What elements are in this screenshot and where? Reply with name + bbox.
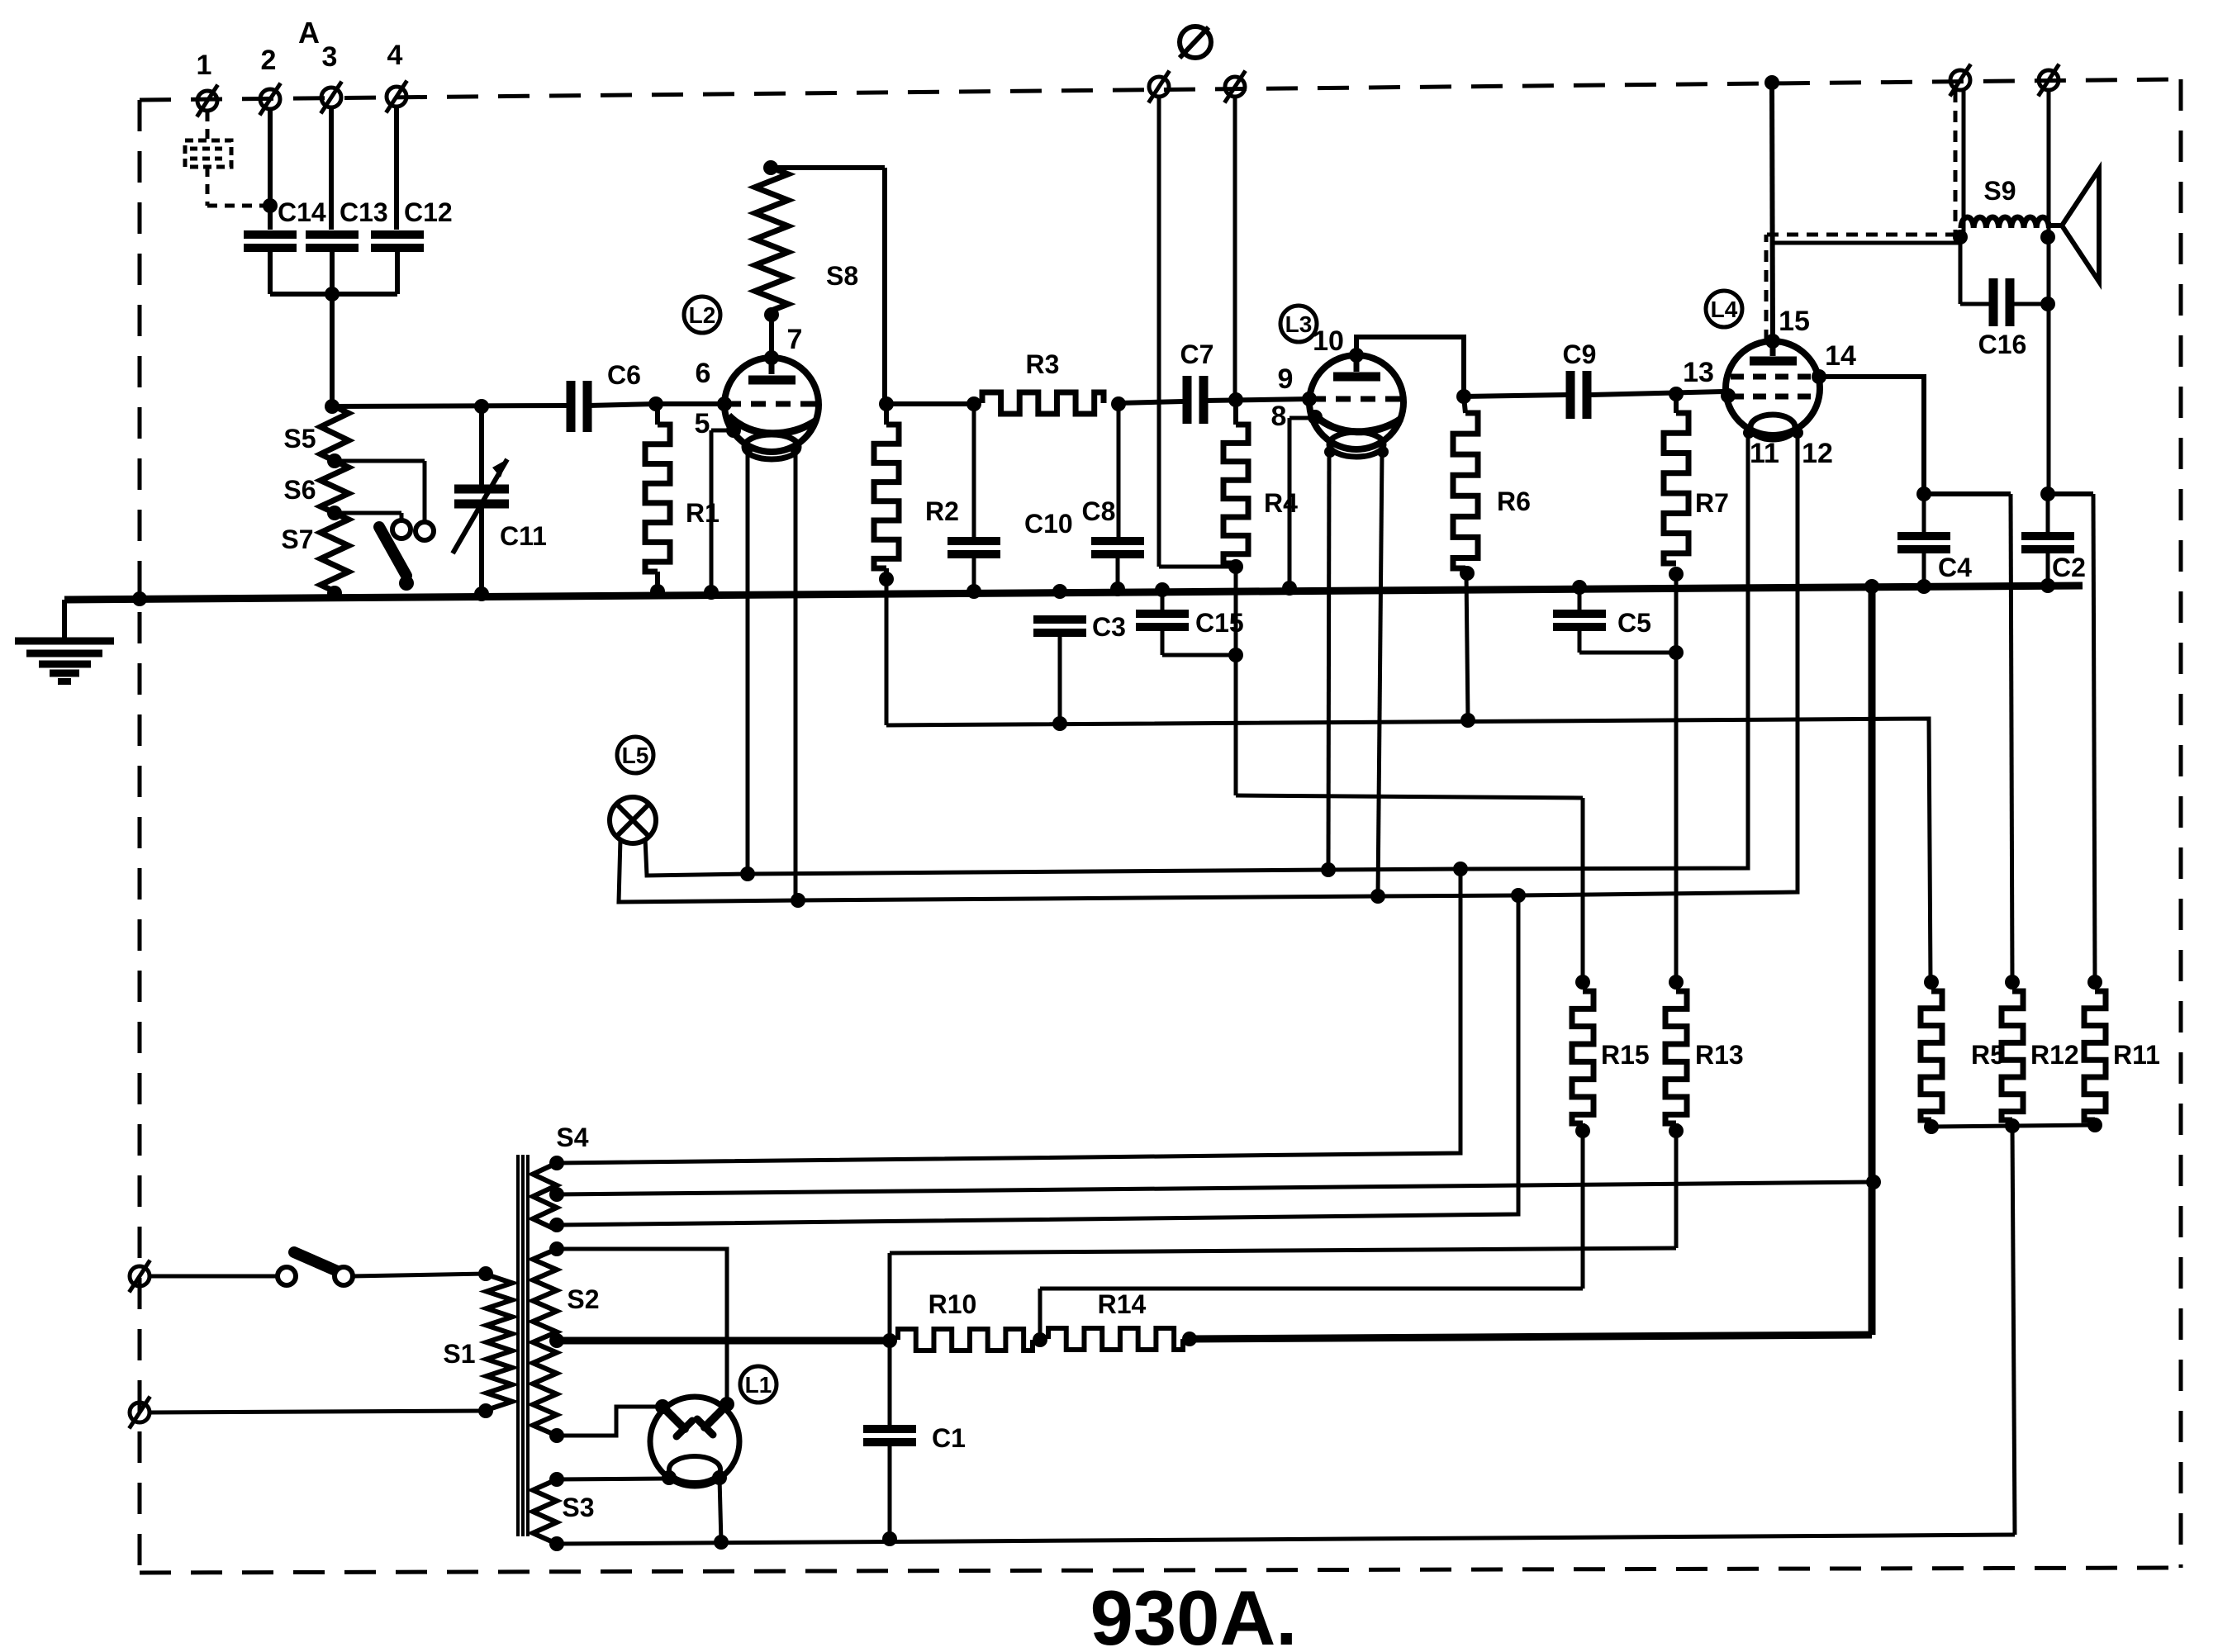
coil S5 (283, 406, 349, 461)
wire (C2 node to R11 line) (2048, 494, 2095, 982)
svg-text:R4: R4 (1264, 488, 1298, 518)
pin 9 (L3 grid) (1278, 363, 1317, 406)
node (R1 on bus) (650, 584, 665, 599)
wire (HT riser, thick) (1869, 586, 1876, 1335)
wire (terminal2 down to C2) (2047, 91, 2051, 494)
node (C8 on bus) (1110, 582, 1125, 596)
pin 7 (L2 anode) (764, 324, 802, 365)
svg-text:C13: C13 (340, 197, 388, 227)
capacitor C5 (1553, 587, 1676, 653)
svg-text:5: 5 (695, 408, 710, 439)
node (HT riser on bus) (1864, 579, 1879, 594)
svg-text:L4: L4 (1711, 297, 1738, 322)
node (R10/R14 junction) (1033, 1332, 1047, 1347)
node (anode riser on border) (1764, 75, 1779, 90)
node (R1/grid) (648, 396, 663, 411)
node (C16 right) (2040, 297, 2055, 311)
pin 12f (L2 filament right) (790, 443, 801, 454)
wire (L2 filament left down) (746, 449, 750, 874)
loudspeaker (2048, 169, 2099, 282)
svg-text:C2: C2 (2052, 553, 2086, 582)
node (S6/S7 tap) (327, 506, 342, 520)
svg-text:S9: S9 (1983, 176, 2016, 206)
wire (L3 anode up-over to R6) (1356, 337, 1464, 396)
node (C15 on bus) (1155, 582, 1170, 597)
wire (R6 bottom through bus) (1466, 573, 1468, 720)
node (C1 on bottom rail) (882, 1531, 897, 1546)
node (R15 bottom) (1575, 1123, 1590, 1138)
resistor R1 (645, 404, 720, 592)
winding S2 (533, 1249, 600, 1436)
wire (R13 bottom to C1 node) (890, 1131, 1676, 1341)
svg-text:C11: C11 (500, 521, 547, 551)
node (C2 on bus) (2040, 578, 2055, 593)
pin 8 (L3 cathode) (1271, 401, 1323, 432)
wire (terminal 2 down) (268, 110, 273, 230)
capacitor C15 (1136, 590, 1244, 655)
coil S6 (283, 461, 349, 513)
wire (fuse to C14, dashed) (207, 167, 266, 206)
node (C5 on bus) (1572, 580, 1587, 595)
pin 10 (L3 anode) (1313, 325, 1364, 363)
terminal (speaker ext 1) (1950, 64, 1970, 97)
switch blade (wave change) (379, 527, 406, 576)
terminal 3 (aerial) (321, 41, 341, 113)
node (S4 riser on wire1) (1453, 862, 1468, 876)
svg-text:14: 14 (1825, 340, 1856, 372)
capacitor C3 (1033, 612, 1126, 724)
svg-text:R11: R11 (2113, 1040, 2160, 1070)
capacitor C10 (948, 404, 1073, 591)
node (L1 on bottom rail) (714, 1535, 729, 1550)
terminal (speaker ext 2) (2038, 64, 2059, 97)
wire (terminal A down) (1159, 97, 1236, 567)
tube L2 label (684, 297, 720, 333)
svg-text:C7: C7 (1180, 339, 1214, 369)
svg-text:L5: L5 (622, 743, 649, 768)
node (R12 bottom) (2005, 1118, 2020, 1133)
svg-text:C6: C6 (607, 360, 641, 390)
wire (terminal B down) (1233, 97, 1237, 400)
lamp L5 (610, 797, 656, 843)
svg-text:R7: R7 (1695, 488, 1729, 518)
capacitor C11 (variable) (453, 459, 547, 553)
tube L1 label (740, 1366, 777, 1403)
wire (L2 filament right down) (794, 449, 798, 900)
resistor R11 (2084, 991, 2160, 1125)
wire (S5 tap to contact) (335, 461, 425, 523)
pin 12 (L4 filament) (1792, 427, 1833, 469)
terminal (mains 1) (129, 1260, 150, 1293)
svg-text:C16: C16 (1978, 330, 2027, 359)
node (S8 top) (763, 160, 778, 175)
svg-text:C10: C10 (1024, 509, 1073, 539)
node (S9 right) (2040, 230, 2055, 244)
node (R6 top) (1456, 389, 1471, 404)
node (L3 fil on wire2) (1370, 889, 1385, 904)
svg-text:6: 6 (696, 358, 711, 389)
wire (speaker pair horizontal) (1767, 235, 1959, 243)
wire (L1 cathode right down) (720, 1478, 721, 1542)
svg-text:S4: S4 (556, 1123, 588, 1152)
resistor R13 (1665, 991, 1744, 1131)
wire (lamp right to filament wire1) (645, 433, 1748, 876)
title 930A (1090, 1574, 1298, 1652)
wire (terminal down dashed pair) (1955, 91, 1964, 237)
svg-text:S8: S8 (826, 261, 858, 291)
node (C3 on bus) (1052, 584, 1067, 599)
node (S7 bottom on bus) (327, 586, 342, 601)
wire (C14 bottom join) (270, 249, 397, 294)
svg-text:S2: S2 (567, 1284, 599, 1314)
resistor R7 (1664, 394, 1729, 563)
resistor R4 (1223, 400, 1298, 563)
resistor R12 (2002, 991, 2079, 1126)
terminal 4 (aerial) (386, 40, 406, 112)
wire (C4 node to R12 line) (1924, 494, 2012, 982)
node (C11 on bus) (474, 586, 489, 601)
node (C10 on bus) (967, 584, 981, 599)
node (R13 top) (1669, 975, 1684, 990)
wire (C6 to grid node) (588, 404, 656, 406)
pin 13 (L4 grid) (1683, 357, 1736, 403)
node (S8 bottom) (764, 307, 779, 322)
wire (pin8 to bus) (1289, 418, 1315, 588)
wire (R4 bottom through bus) (1234, 567, 1238, 655)
wire (lamp left to filament wire2) (619, 433, 1798, 902)
svg-text:8: 8 (1271, 401, 1287, 432)
node (pin8 on bus) (1282, 581, 1297, 596)
wire (R3 right to C7) (1118, 401, 1183, 403)
svg-text:R6: R6 (1497, 487, 1531, 516)
capacitor C1 (863, 1341, 966, 1539)
wire (C11 bottom) (479, 504, 484, 594)
wire (R14 right to HT riser, thick) (1190, 1335, 1872, 1339)
svg-text:12: 12 (1802, 438, 1833, 469)
wire (HT rail W1) (886, 719, 1931, 982)
svg-text:11: 11 (1750, 438, 1779, 469)
node (S4 tap2) (549, 1187, 564, 1202)
wire (C13 bottom) (330, 249, 335, 294)
node (R15 top) (1575, 975, 1590, 990)
wire (switch to S1) (352, 1274, 486, 1276)
pin 15 (L4 anode) (1765, 306, 1810, 349)
pin 11f (L2 filament left) (742, 443, 753, 454)
pin (L1 anode 1) (655, 1399, 670, 1414)
wire (L3 filament right down) (1378, 452, 1382, 896)
node (S4 riser on wire2) (1511, 888, 1526, 903)
node (S4 tap1) (549, 1156, 564, 1170)
node (S2 mid tap) (549, 1333, 564, 1348)
svg-text:S7: S7 (281, 525, 313, 554)
terminal (mains 2) (129, 1397, 150, 1429)
node (R2 top) (879, 396, 894, 411)
capacitor C2 (2021, 494, 2086, 586)
svg-text:10: 10 (1313, 325, 1344, 357)
node (C5/R7 junction) (1669, 645, 1684, 660)
svg-text:L1: L1 (745, 1372, 772, 1398)
wire (R4 node down to bias line) (1236, 655, 1583, 798)
wire (C12 bottom) (395, 249, 400, 294)
node (S1 top) (478, 1266, 493, 1281)
wire (aerial node to C6) (332, 406, 567, 406)
svg-text:S1: S1 (443, 1339, 475, 1369)
wire (C7 to R4 node) (1204, 399, 1309, 401)
svg-text:R1: R1 (686, 498, 720, 528)
wire (terminal 3 down) (329, 108, 334, 230)
fuse (aerial safety gap) (185, 112, 231, 167)
node (R3 right / C8 top) (1111, 396, 1126, 411)
wire (R5/R12/R11 bottoms) (1931, 1125, 2095, 1127)
svg-text:R13: R13 (1695, 1040, 1744, 1070)
contact (wave switch left) (392, 520, 411, 539)
node (S5/S6 tap) (327, 453, 342, 468)
wire (L3 filament left down) (1328, 452, 1329, 870)
pin 5 (L2 cathode) (695, 408, 741, 439)
wire (C11 top) (479, 406, 484, 489)
wire (pin5 to bus) (711, 430, 734, 592)
tube L4 label (1706, 291, 1742, 327)
node (R6 riser on W1) (1460, 713, 1475, 728)
svg-text:R14: R14 (1098, 1289, 1147, 1319)
terminal (pickup A) (1148, 71, 1169, 103)
svg-text:C14: C14 (278, 197, 326, 227)
pin 6 (L2 grid) (696, 358, 732, 411)
svg-text:1: 1 (197, 50, 212, 81)
contact (wave switch right) (416, 522, 434, 540)
resistor R14 (1048, 1289, 1183, 1350)
wire (S8 bottom to pin7) (769, 311, 774, 358)
node (S2 top tap) (549, 1241, 564, 1256)
node (C4 top) (1916, 487, 1931, 501)
contact (mains switch left) (278, 1267, 296, 1285)
node (S1 bottom) (478, 1403, 493, 1418)
pin 14 (L4 screen) (1812, 340, 1856, 384)
wire (mains 1 to switch) (150, 1275, 278, 1279)
node (S4 tap3) (549, 1218, 564, 1232)
svg-text:A: A (298, 16, 320, 50)
wire (S4 tap3 to filament wire2) (557, 895, 1518, 1225)
tube L2 (724, 358, 819, 459)
transformer core (518, 1155, 528, 1536)
tube L4 (1726, 341, 1820, 439)
node (L2 fil on wire1) (740, 866, 755, 881)
resistor R3 (982, 349, 1104, 414)
svg-text:3: 3 (322, 41, 338, 73)
wire (R2 node to C10 node) (886, 401, 974, 406)
svg-text:R10: R10 (929, 1289, 977, 1319)
svg-text:R15: R15 (1601, 1040, 1650, 1070)
node (aerial input) (325, 399, 340, 414)
resistor S8 (coil) (755, 168, 858, 311)
node (C4 on bus) (1916, 579, 1931, 594)
svg-text:2: 2 (261, 45, 277, 76)
svg-text:S3: S3 (562, 1493, 594, 1522)
svg-text:R3: R3 (1026, 349, 1060, 379)
svg-text:13: 13 (1683, 357, 1714, 388)
node (R10 left) (882, 1333, 897, 1348)
winding S4 (533, 1123, 589, 1230)
node (S2 bottom tap) (549, 1428, 564, 1443)
node (aerial caps junction) (325, 287, 340, 301)
capacitor C16 (1960, 237, 2048, 359)
capacitor C8 (1082, 404, 1144, 589)
node (pin5 on bus) (704, 585, 719, 600)
wire (pin14 to C4 node) (1819, 377, 1924, 494)
svg-text:C1: C1 (932, 1423, 966, 1453)
node (R4 bottom) (1228, 559, 1243, 574)
capacitor C14 (244, 197, 326, 248)
wire (S2 bottom to L1 anode1) (557, 1407, 656, 1436)
node (S9 left) (1953, 230, 1968, 244)
capacitor C6 (571, 360, 641, 432)
coil S7 (281, 513, 349, 591)
ground bus wire (64, 586, 2083, 600)
node (C3 bottom) (1052, 716, 1067, 731)
resistor R10 (898, 1289, 1033, 1351)
node (S3 bottom tap) (549, 1536, 564, 1551)
tube L3 label (1280, 306, 1317, 342)
svg-text:R12: R12 (2030, 1040, 2079, 1070)
ground (15, 600, 114, 681)
node (R4 top / grid L3) (1228, 392, 1243, 407)
tube L1 (650, 1397, 739, 1486)
switch blade (mains) (294, 1252, 341, 1273)
wire (mains 2 to S1) (150, 1411, 486, 1412)
wire (S4 tap2 to HT riser) (557, 1182, 1874, 1194)
wire (S6 tap to contact) (335, 513, 401, 520)
svg-text:C5: C5 (1617, 608, 1651, 638)
wire (S2 mid to R10, thick) (557, 1337, 890, 1345)
node (R6 bottom) (1460, 566, 1475, 581)
terminal (pickup B) (1224, 71, 1245, 103)
svg-text:C8: C8 (1082, 496, 1116, 526)
svg-text:930A.: 930A. (1090, 1574, 1298, 1652)
wire (R7 bottom down to R13) (1674, 574, 1679, 982)
node (S3 top tap) (549, 1472, 564, 1487)
pin (L1 cathode right) (712, 1470, 727, 1485)
terminal 2 (aerial) (259, 45, 280, 115)
node (R13 bottom) (1669, 1123, 1684, 1138)
coil S9 (speaker) (1961, 176, 2049, 228)
winding S1 (primary) (443, 1275, 512, 1410)
node (bus/border) (132, 591, 147, 606)
svg-text:R2: R2 (925, 496, 959, 526)
contact (mains switch right) (335, 1267, 353, 1285)
svg-text:C3: C3 (1092, 612, 1126, 642)
svg-text:C4: C4 (1938, 553, 1972, 582)
wire (terminal 4 down) (394, 107, 399, 230)
node (R5 bottom) (1924, 1119, 1939, 1134)
resistor R6 (1453, 396, 1531, 573)
node (R12 top) (2005, 975, 2020, 990)
wire (bias line down to R15) (1581, 798, 1585, 982)
wire (grid node to L2 pin6) (656, 401, 726, 406)
pin f1 (L3 filament left) (1324, 446, 1336, 458)
node (R11 bottom) (2087, 1118, 2102, 1132)
node (R7 top) (1669, 387, 1684, 401)
wire (R15 bottom to R14 tap) (1040, 1131, 1583, 1340)
svg-text:L3: L3 (1285, 311, 1313, 337)
wire (L4 anode riser) (1766, 83, 1773, 341)
svg-text:L2: L2 (689, 302, 716, 328)
node (L3 fil on wire1) (1321, 862, 1336, 877)
svg-text:C12: C12 (404, 197, 453, 227)
node (C2 top) (2040, 487, 2055, 501)
wire (S4 tap1 to filament wire1) (557, 869, 1460, 1163)
svg-text:15: 15 (1779, 306, 1810, 337)
node (L2 fil on wire2) (791, 893, 805, 908)
svg-text:S5: S5 (283, 424, 316, 453)
node (R2 bottom) (879, 572, 894, 586)
capacitor C4 (1897, 494, 1972, 586)
svg-text:C9: C9 (1563, 339, 1597, 369)
lamp L5 label (617, 737, 653, 773)
node (fuse/C14 junction) (263, 198, 278, 213)
node (S4 tap2 on riser) (1866, 1175, 1881, 1189)
wire (R12 bottom to bottom rail) (2012, 1126, 2015, 1535)
tube L3 (1309, 355, 1403, 457)
node (blade on bus) (399, 576, 414, 591)
svg-text:S6: S6 (283, 475, 316, 505)
capacitor C13 (306, 197, 388, 248)
wire (R2 bottom through bus down) (885, 579, 889, 725)
wire (bottom rail) (557, 1535, 2015, 1544)
resistor R15 (1572, 991, 1650, 1131)
node (C11 branch) (474, 399, 489, 414)
node (R11 top) (2087, 975, 2102, 990)
pin 11 (L4 filament) (1743, 427, 1779, 469)
node (R14 right) (1182, 1332, 1197, 1346)
node (R5 top) (1924, 975, 1939, 990)
pin (L1 cathode left) (662, 1470, 677, 1485)
wire (R14 tap riser) (1038, 1289, 1043, 1340)
winding S3 (533, 1479, 595, 1544)
terminal (pickup jack) (1180, 26, 1211, 58)
resistor R5 (1921, 991, 2005, 1127)
resistor R2 (874, 404, 959, 579)
node (C10 top) (967, 396, 981, 411)
wire (S2 top to L1 anode2) (557, 1249, 727, 1404)
capacitor C12 (371, 197, 453, 248)
capacitor C9 (1464, 339, 1723, 419)
terminal 1 (aerial) (197, 50, 218, 116)
svg-text:7: 7 (787, 324, 803, 355)
wire (junction down to coil) (330, 294, 335, 406)
node (R7 bottom) (1669, 567, 1684, 582)
capacitor C7 (1180, 339, 1214, 424)
pin f2 (L3 filament right) (1377, 446, 1389, 458)
node (R4/C15 junction) (1228, 648, 1243, 662)
pin (L1 anode 2) (720, 1397, 734, 1412)
wire (S3 top to L1 cathode) (557, 1479, 667, 1479)
node A label (298, 16, 320, 50)
svg-text:9: 9 (1278, 363, 1294, 395)
wire (S8 top to R2 node) (771, 168, 885, 404)
svg-text:4: 4 (387, 40, 403, 71)
